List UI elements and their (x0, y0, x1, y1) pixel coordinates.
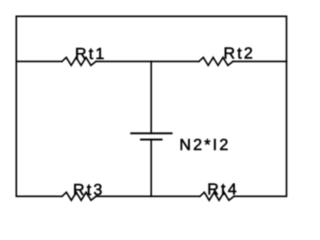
resistor Rt1 (62, 57, 96, 65)
wire middle vertical upper (150, 61, 152, 133)
svg-text:Rt3: Rt3 (73, 182, 105, 199)
wire top-right segment (233, 60, 287, 62)
wire top-left segment (16, 60, 62, 62)
outer loop wire (rectangle border, bottom side carries Rt3/Rt4) (16, 16, 286, 196)
resistor Rt3 (62, 192, 96, 200)
battery source N2*I2 bottom plate (141, 139, 162, 141)
svg-text:Rt2: Rt2 (224, 46, 256, 63)
wire middle vertical lower (150, 140, 152, 197)
svg-text:Rt1: Rt1 (75, 46, 107, 63)
svg-text:N2*I2: N2*I2 (179, 137, 230, 154)
resistor Rt2 (199, 57, 233, 65)
svg-text:Rt4: Rt4 (207, 182, 239, 199)
wire top-middle segment (96, 60, 199, 62)
battery source N2*I2 top plate (131, 132, 171, 134)
resistor Rt4 (200, 192, 234, 200)
wire bottom-middle segment (96, 195, 200, 197)
